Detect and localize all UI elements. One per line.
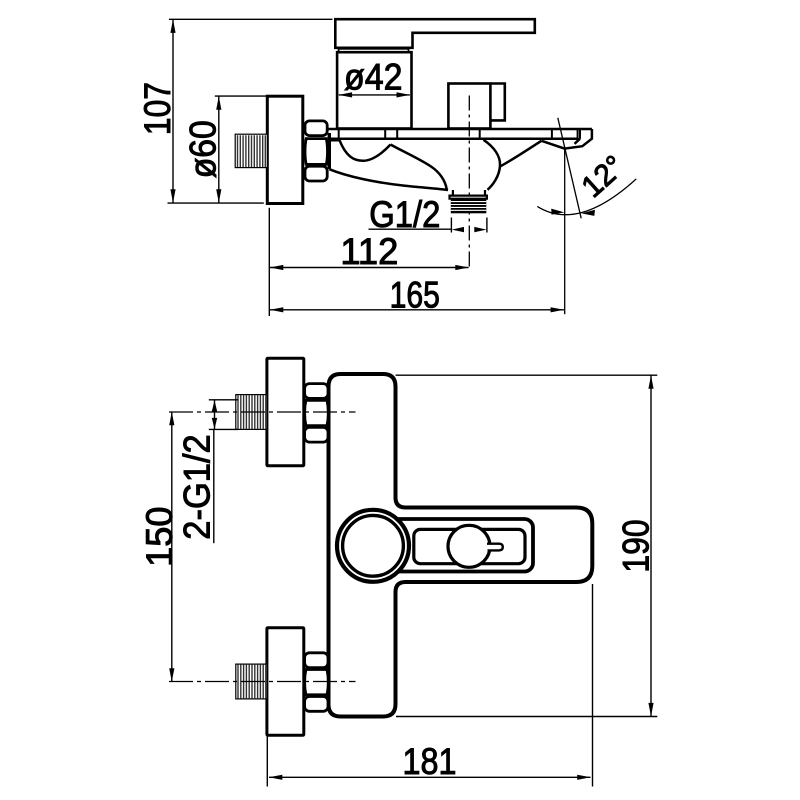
body under-deck: outlet right bulge — [484, 140, 501, 190]
shower hose outlet block — [448, 84, 490, 129]
shower outlet side tab — [490, 84, 504, 121]
dimension 112 line — [270, 267, 469, 269]
dimension 150 line — [171, 412, 173, 682]
angle arc arrows — [551, 209, 595, 216]
top inlet centerline — [169, 411, 356, 413]
dimension 190 ticks — [396, 375, 658, 716]
wall flange (side) — [267, 96, 303, 203]
svg-text:190: 190 — [615, 519, 656, 572]
svg-text:ø60: ø60 — [183, 120, 224, 178]
bottom wall flange (front) — [267, 628, 304, 736]
dimension Ø60: extension tick — [215, 95, 266, 97]
top hex nut (front) — [305, 384, 329, 442]
bottom inlet centerline — [169, 681, 356, 683]
dimension 2-G1/2 double arrow — [212, 400, 217, 429]
dimension Ø42 arrow line — [339, 94, 410, 96]
cartridge body — [337, 52, 411, 128]
bottom hex nut (front) — [305, 653, 329, 712]
deck segment ticks — [339, 129, 580, 139]
bottom wall pipe thread — [236, 664, 267, 699]
angle arc — [537, 179, 636, 215]
hex nut (side) — [305, 121, 329, 181]
cartridge cap ring — [339, 49, 409, 52]
ring outer circle — [337, 510, 409, 582]
dimension G1/2 arrows — [452, 227, 487, 232]
svg-text:112: 112 — [340, 231, 398, 272]
svg-text:2-G1/2: 2-G1/2 — [177, 434, 218, 539]
dimension 165 line — [270, 309, 564, 311]
dimension 190 line — [650, 376, 652, 717]
lever handle — [335, 19, 535, 48]
body under-deck: spout channel curve — [500, 141, 542, 167]
angle slanted 12° line — [558, 118, 581, 219]
body under-deck: outer lower sweep — [329, 169, 448, 190]
dimension Ø60 line — [218, 96, 220, 202]
top wall pipe thread — [236, 395, 267, 430]
top wall flange (front) — [267, 358, 304, 466]
dimension 2-G1/2 ticks — [209, 400, 238, 430]
spout outlet stub — [450, 190, 487, 199]
dimension 2-G1/2 underline — [213, 429, 215, 543]
spout tip wedge — [542, 129, 592, 149]
wall pipe thread (side) — [235, 134, 267, 167]
ring inner circle — [343, 515, 404, 576]
escutcheon tongue capsule — [373, 519, 533, 572]
dimension 181 extension lines — [267, 584, 592, 787]
svg-text:ø42: ø42 — [344, 56, 403, 97]
dimension G1/2 underline — [369, 228, 452, 230]
dimension G1/2 extension lines — [451, 218, 487, 233]
dimension 107: extension ticks — [168, 19, 333, 203]
svg-text:181: 181 — [403, 741, 457, 782]
knob notch — [487, 544, 503, 551]
spout outlet thread G1/2 — [451, 199, 487, 214]
svg-text:107: 107 — [137, 82, 178, 135]
deck plate — [328, 129, 592, 139]
body under-deck: left smile curve — [330, 140, 391, 161]
dimension 107 line — [172, 20, 174, 203]
angle vertical reference line — [564, 149, 566, 315]
body outline (trunk + arm) — [329, 374, 593, 717]
dimension 181 line — [269, 776, 591, 778]
left extension line (wall plane) — [268, 208, 270, 316]
knob circle — [448, 525, 490, 567]
body under-deck: neck upper curve — [391, 145, 447, 190]
outlet centerline (dash-dot vertical) — [468, 96, 470, 271]
svg-text:165: 165 — [390, 275, 440, 316]
svg-text:150: 150 — [139, 507, 180, 567]
inner slot — [414, 529, 525, 563]
